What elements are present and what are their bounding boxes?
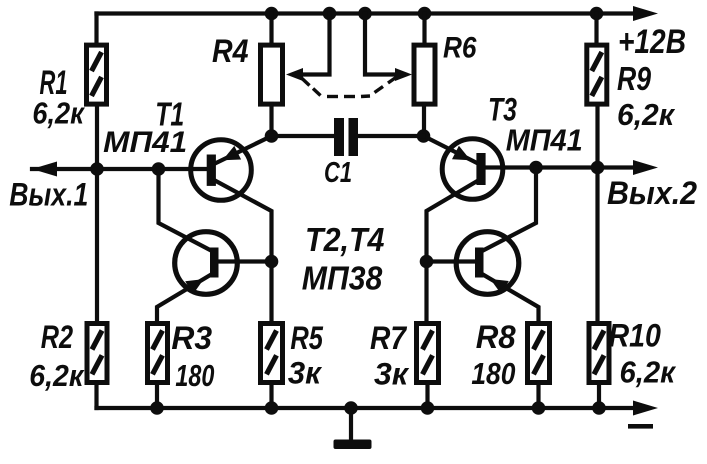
node dot R6 top [418,7,432,21]
resistor R10 [589,324,609,383]
svg-text:R6: R6 [443,32,477,65]
svg-text:МП41: МП41 [103,126,187,159]
wire R3 bottom stub [155,384,159,408]
capacitor C1 left plate [334,118,344,156]
svg-text:Вых.1: Вых.1 [9,177,88,213]
wire R2 bottom stub [94,384,98,408]
arrow R4 wiper [286,68,303,81]
wire T4 collector from out2 node [482,168,536,252]
wire T2 emitter down to R3 [157,274,212,322]
svg-text:+12В: +12В [618,23,686,61]
capacitor C1 right plate [349,118,359,156]
svg-text:R10: R10 [609,317,662,353]
wire R8 bottom stub [536,384,540,408]
resistor R1 [87,45,107,104]
transistor T1 base bar [207,155,216,186]
arrow R6 wiper [395,68,412,81]
arrow T4 emitter [490,279,509,294]
node dot T4 base column [420,255,434,269]
svg-text:R7: R7 [370,320,408,356]
svg-text:МП41: МП41 [506,123,583,158]
wire R1 to R2 column [95,105,99,322]
wire output 1 line [32,167,208,171]
wire T2 base link [217,259,270,263]
node dot T4 link / out2 [529,161,543,175]
svg-text:R9: R9 [617,60,652,97]
node dot R8 bottom [532,401,546,415]
wire R7 bottom stub [425,384,429,408]
transistor T2 body [175,232,238,295]
node dot left wiper top [323,7,337,21]
arrow output Vyh.1 [32,162,57,177]
svg-text:R4: R4 [212,33,249,69]
svg-text:3к: 3к [374,356,410,392]
svg-text:6,2к: 6,2к [32,96,85,131]
node dot T2 base column [265,255,279,269]
node dot R9 top [590,7,604,21]
wire R10 bottom stub [597,384,601,408]
transistor T1 body [191,140,252,201]
resistor R9 [587,45,607,104]
wire R9 to R10 column [595,105,599,322]
svg-text:R5: R5 [290,320,324,356]
resistor R7 [417,324,439,383]
wire T1 emitter to node [214,136,272,164]
arrow T1 emitter [223,146,242,160]
svg-text:С1: С1 [324,157,352,189]
wire R4 bottom stub [269,104,273,136]
wire T3 emitter to node [424,136,480,164]
transistor T2 base bar [210,248,219,278]
svg-text:6,2к: 6,2к [29,358,84,393]
wire top +12V rail [97,11,637,15]
arrow output Vyh.2 [633,160,658,175]
minus polarity mark [628,424,653,429]
wire R6 top stub [422,14,426,46]
node dot R1 column / out1 [90,162,104,176]
transistor T3 base bar [476,153,485,185]
transistor T4 body [456,232,519,295]
resistor R8 [528,324,550,383]
resistor R2 [87,324,107,383]
wire ground stub [349,408,353,440]
node dot C1 left [265,129,279,143]
wire output 2 line [484,165,636,169]
node dot R7 bottom [421,401,435,415]
resistor R6 (pot section) [414,45,435,104]
dashed gang link R4-R6 [301,77,397,97]
transistor T3 body [442,139,503,200]
node dot R9 column / out2 [591,161,605,175]
wire bottom common rail [97,406,637,410]
ground bar [334,440,372,450]
wire R5 bottom stub [269,384,273,408]
svg-text:R8: R8 [476,319,516,355]
svg-text:R3: R3 [171,320,212,356]
wire C1 right lead [357,134,424,138]
node dot R4 top [265,7,279,21]
node dot right wiper top [358,7,372,21]
svg-text:180: 180 [175,358,214,393]
resistor R3 [148,324,168,383]
svg-text:МП38: МП38 [302,260,383,297]
svg-text:R2: R2 [41,319,73,355]
wire R4 top stub [269,14,273,46]
svg-text:6,2к: 6,2к [617,97,675,132]
wire T1 collector down to R5 [214,180,272,322]
wire T3 collector down to R7 [427,180,480,322]
arrow bottom rail right end [633,401,658,416]
svg-text:3к: 3к [288,355,323,391]
node dot R10 bottom [592,401,606,415]
arrow T3 emitter [452,146,471,161]
node dot C1 right [417,129,431,143]
wire C1 left lead [272,134,336,138]
svg-text:6,2к: 6,2к [620,355,677,390]
node dot R5 bottom [265,401,279,415]
node dot ground [344,401,358,415]
svg-text:180: 180 [471,356,515,391]
wire R9 top stub [594,14,598,46]
arrow +12V rail right end [633,6,658,21]
wire R1 top stub [94,14,98,46]
node dot T1 base / T2 branch [152,162,166,176]
resistor R5 [261,324,283,383]
arrow T2 emitter [185,279,204,294]
svg-text:Вых.2: Вых.2 [607,175,697,211]
wire R6 bottom stub [422,104,426,136]
transistor T4 base bar [475,248,484,278]
wire R6 wiper arm [365,14,394,75]
wire R4 wiper arm [302,14,330,75]
svg-text:Т2,Т4: Т2,Т4 [305,221,385,258]
wire T4 emitter down to R8 [482,274,539,322]
node dot R3 bottom [150,401,164,415]
resistor R4 (pot section) [261,45,283,104]
wire T4 base link [427,259,478,263]
wire T2 collector from out1 node [159,169,213,251]
